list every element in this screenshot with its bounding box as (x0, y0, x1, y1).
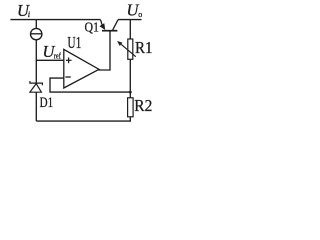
current source symbol circle (31, 28, 42, 39)
wire input column upper stub (35, 20, 37, 29)
wire zener to bottom rail (35, 92, 37, 121)
svg-text:R2: R2 (134, 96, 152, 115)
zener diode D1 triangle (30, 84, 42, 93)
wire R1 bottom lead to junction (129, 59, 131, 98)
wire op-amp minus input feedback (50, 78, 130, 92)
resistor R1 body (128, 39, 133, 59)
wire R2 bottom lead (129, 117, 131, 121)
zener diode D1 cathode bar (30, 81, 43, 85)
transistor Q1 collector diagonal (113, 20, 118, 30)
wire bottom rail (36, 120, 131, 122)
svg-text:U1: U1 (67, 33, 81, 52)
current source bar (31, 33, 42, 35)
transistor Q1 base bar (102, 30, 117, 32)
wire top right rail to U_o (118, 19, 142, 21)
svg-text:ref: ref (54, 50, 61, 60)
resistor R2 body (128, 98, 134, 117)
op-amp plus input sign (66, 57, 72, 63)
wire input column middle (35, 40, 37, 83)
transistor Q1 emitter lead with arrowhead (101, 20, 102, 25)
svg-text:o: o (138, 10, 142, 19)
wire R1 top lead (129, 20, 131, 39)
svg-text:i: i (28, 9, 31, 19)
svg-text:D1: D1 (40, 95, 54, 111)
wire U_ref tap to op-amp plus input (36, 59, 64, 61)
op-amp U1 triangle (64, 49, 99, 88)
op-amp minus input sign (65, 76, 70, 78)
junction node feedback divider tap (129, 91, 132, 94)
svg-text:Q1: Q1 (85, 20, 100, 35)
wire top input rail (10, 19, 100, 21)
svg-text:R1: R1 (135, 38, 153, 57)
wire op-amp output to Q1 base (98, 31, 110, 70)
resistor R1 adjustment arrow (121, 44, 136, 56)
